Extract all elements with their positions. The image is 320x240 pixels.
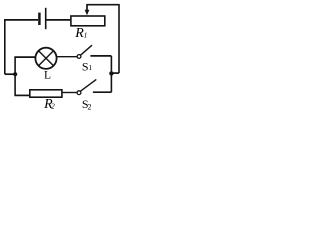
rheostat wiper arrowhead — [85, 10, 90, 16]
wire junction to right vertical — [111, 72, 119, 74]
switch S1 blade — [81, 45, 93, 55]
rheostat wiper shaft — [86, 5, 88, 11]
lamp cross line 1 — [39, 51, 54, 66]
wire battery to R1 — [46, 19, 71, 21]
battery negative plate (short thick) — [38, 13, 41, 25]
svg-text:1: 1 — [88, 63, 92, 72]
svg-text:2: 2 — [51, 101, 55, 110]
switch S2 pivot — [77, 91, 81, 95]
junction node left — [13, 72, 17, 76]
battery positive plate (long thin) — [45, 8, 47, 29]
svg-text:1: 1 — [84, 30, 88, 39]
lamp L circle — [35, 48, 56, 69]
wire R2 to S2 — [62, 92, 77, 94]
svg-text:L: L — [44, 70, 51, 82]
svg-text:2: 2 — [88, 103, 92, 112]
switch S2 blade — [80, 79, 96, 91]
wire right vertical — [118, 5, 120, 73]
lamp cross line 2 — [39, 51, 54, 66]
resistor R2 body — [30, 90, 62, 97]
resistor R1 body — [71, 16, 105, 26]
wire left branch vertical — [14, 57, 16, 95]
wire top left horizontal — [4, 19, 38, 21]
wire S2 right — [93, 91, 112, 93]
switch S1 pivot — [77, 55, 81, 59]
wire lamp feed horizontal — [14, 56, 35, 58]
junction node right — [109, 71, 113, 75]
wire lamp to S1 — [57, 56, 77, 58]
wire S1 right — [90, 55, 111, 57]
wire left connector to junction — [5, 73, 15, 75]
wire mid-right vertical — [110, 56, 112, 92]
wire left vertical — [4, 19, 6, 74]
wire R2 feed horizontal — [14, 94, 29, 96]
wire wiper feed top — [86, 4, 119, 6]
